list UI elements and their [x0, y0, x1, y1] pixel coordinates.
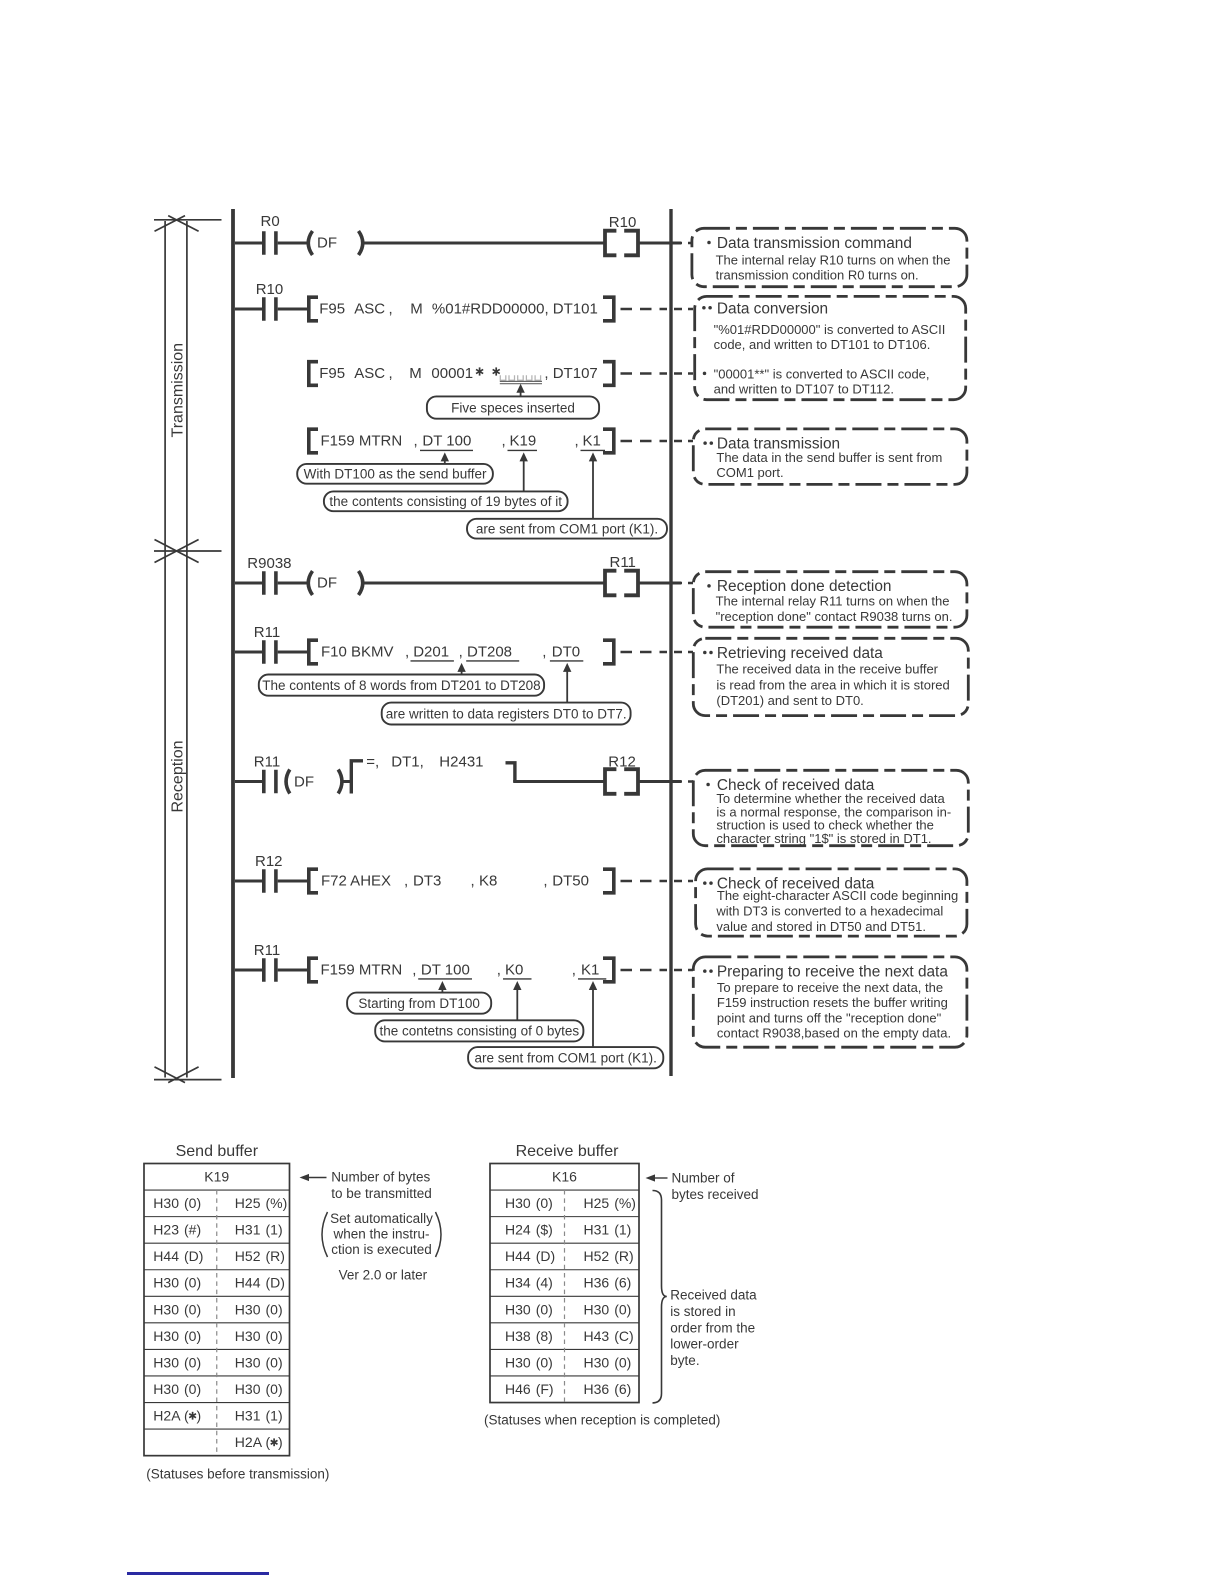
svg-text:bytes received: bytes received: [672, 1187, 759, 1202]
svg-text:the contents consisting of 19: the contents consisting of 19 bytes of i…: [329, 494, 562, 509]
note 5 (Retrieving received data) bullets: [703, 651, 707, 655]
svg-text:character string "1$" is store: character string "1$" is stored in DT1.: [716, 831, 931, 846]
wire rung6 left: [235, 651, 262, 654]
five space placeholders (gray): [500, 375, 506, 380]
DF edge-detect rung1: [308, 231, 312, 255]
svg-text:(Statuses when reception is co: (Statuses when reception is completed): [484, 1413, 720, 1428]
instruction F95 ASC (1) close bracket: [603, 297, 614, 321]
Receive buffer column divider (dashed): [564, 1190, 566, 1402]
note 6 (Check of received data 1) border: [693, 770, 968, 845]
Send buffer row lines: [144, 1189, 290, 1191]
wire rung8 left: [235, 880, 262, 883]
coil R10: [605, 231, 616, 256]
dashed link to note 5: [621, 651, 668, 653]
svg-text:R11: R11: [254, 624, 280, 641]
svg-text:H36(6): H36(6): [584, 1275, 632, 1291]
svg-text:is stored in: is stored in: [670, 1304, 735, 1319]
contact R11 rung6: [262, 640, 266, 664]
svg-text:are written to data registers: are written to data registers DT0 to DT7…: [386, 706, 627, 721]
svg-text:H30(0): H30(0): [505, 1354, 553, 1370]
svg-text:H30(0): H30(0): [153, 1381, 201, 1397]
instruction F95 ASC (2) open bracket: [309, 362, 318, 386]
wire: [278, 969, 310, 972]
svg-text:with DT3 is converted to a hex: with DT3 is converted to a hexadecimal: [715, 904, 943, 919]
svg-text:Starting from DT100: Starting from DT100: [358, 996, 480, 1011]
svg-text:Number of: Number of: [672, 1171, 735, 1186]
note 2 bullets: [702, 306, 706, 310]
callout: sent from COM1 port: [467, 519, 667, 539]
svg-text:H30(0): H30(0): [153, 1301, 201, 1317]
wire rung7 left: [235, 780, 262, 783]
contact R0: [262, 231, 266, 255]
callout: written to DT0..DT7: [382, 703, 631, 725]
right power rail: [669, 209, 672, 1076]
compare block close corner bracket: [506, 763, 515, 782]
svg-text:Retrieving received data: Retrieving received data: [717, 645, 883, 662]
note 4 (Reception done detection) bullets: [707, 584, 711, 588]
svg-text:H30(0): H30(0): [584, 1354, 632, 1370]
note 7 (Check of received data 2) bullets: [703, 881, 707, 885]
svg-text:H30(0): H30(0): [235, 1354, 283, 1370]
svg-text:H30(0): H30(0): [153, 1328, 201, 1344]
svg-text:H30(0): H30(0): [153, 1195, 201, 1211]
svg-text:DF: DF: [317, 575, 337, 592]
svg-text:The contents of 8 words from D: The contents of 8 words from DT201 to DT…: [262, 678, 540, 693]
svg-text:Receive buffer: Receive buffer: [516, 1143, 620, 1160]
contact R9038: [262, 571, 266, 595]
dashed link to note 3: [621, 440, 668, 442]
svg-text:COM1 port.: COM1 port.: [716, 465, 783, 480]
contact R11 rung7: [262, 770, 266, 794]
section span indicator: Transmission/Reception double arrow: [154, 216, 222, 1083]
arrow to spaces: [520, 391, 522, 397]
instruction F72 AHEX open bracket: [309, 869, 318, 893]
Receive buffer table frame: [490, 1164, 639, 1403]
wire: [278, 242, 310, 245]
svg-text:H36(6): H36(6): [584, 1381, 632, 1397]
svg-text:Send buffer: Send buffer: [176, 1143, 259, 1160]
svg-text:Set automatically: Set automatically: [330, 1211, 433, 1226]
svg-text:Transmission: Transmission: [169, 343, 186, 438]
svg-text:Ver 2.0 or later: Ver 2.0 or later: [339, 1268, 428, 1283]
note 8 (Preparing to receive the next data) bullets: [703, 969, 707, 973]
svg-text:The eight-character ASCII code: The eight-character ASCII code beginning: [717, 888, 958, 903]
svg-text:and written to DT107 to DT112.: and written to DT107 to DT112.: [714, 382, 894, 397]
svg-text:F159 instruction resets the bu: F159 instruction resets the buffer writi…: [717, 995, 948, 1010]
instruction F95 ASC (1) open bracket: [309, 297, 318, 321]
DF edge-detect rung5: [308, 571, 312, 595]
instruction F10 BKMV open bracket: [309, 640, 318, 664]
svg-text:transmission condition R0 turn: transmission condition R0 turns on.: [716, 268, 919, 283]
note 2 (Data conversion) border: [695, 296, 966, 399]
svg-text:H30(0): H30(0): [235, 1381, 283, 1397]
right brace for received data rows: [653, 1191, 667, 1403]
svg-text:DF: DF: [317, 235, 337, 252]
svg-text:R11: R11: [254, 754, 280, 771]
svg-text:are sent from COM1 port (K1).: are sent from COM1 port (K1).: [475, 1050, 657, 1065]
operand underlines rung9: [418, 978, 472, 980]
svg-text:value and stored in DT50 and D: value and stored in DT50 and DT51.: [716, 919, 926, 934]
svg-text:H30(0): H30(0): [584, 1301, 632, 1317]
svg-text:R10: R10: [609, 214, 637, 231]
instruction F95 ASC (2) close bracket: [603, 362, 614, 386]
Send buffer table frame: [144, 1164, 290, 1456]
arrow K0: [516, 988, 518, 1020]
svg-text:R11: R11: [254, 942, 280, 959]
dashed link to note 6: [674, 780, 693, 782]
arrow DT208: [461, 670, 463, 677]
wire: [638, 582, 681, 585]
note 6 (Check of received data 1) bullets: [706, 783, 710, 787]
svg-text:Reception: Reception: [169, 740, 186, 812]
svg-text:H31(1): H31(1): [584, 1222, 632, 1238]
dashed link to note 7: [621, 880, 668, 882]
note 1 (Data transmission command) bullets: [707, 241, 711, 245]
big parentheses note: [322, 1212, 328, 1257]
svg-text:H52(R): H52(R): [584, 1248, 634, 1264]
svg-text:"%01#RDD00000" is converted to: "%01#RDD00000" is converted to ASCII: [714, 322, 946, 337]
svg-text:H31(1): H31(1): [235, 1408, 283, 1424]
svg-text:The internal relay R10 turns o: The internal relay R10 turns on when the: [716, 252, 951, 267]
callout: contents 19 bytes: [324, 491, 568, 511]
coil R12: [605, 769, 616, 794]
double underline under spaces: [500, 380, 542, 382]
instruction F159 MTRN (reset) close bracket: [603, 958, 614, 982]
svg-text:H23(#): H23(#): [153, 1222, 201, 1238]
compare block open corner bracket: [351, 761, 363, 794]
dashed link to note 2b: [621, 372, 668, 374]
svg-text:H44(D): H44(D): [153, 1248, 203, 1264]
svg-text:H38(8): H38(8): [505, 1328, 553, 1344]
wire: [513, 780, 604, 783]
note 2 bullet para 2: [703, 372, 707, 376]
svg-text:DF: DF: [294, 774, 314, 791]
svg-text:(DT201) and sent to DT0.: (DT201) and sent to DT0.: [716, 693, 863, 708]
svg-text:ction is executed: ction is executed: [331, 1242, 432, 1257]
svg-text:F95ASC,M%01#RDD00000, DT101: F95ASC,M%01#RDD00000, DT101: [319, 301, 598, 318]
svg-text:R11: R11: [610, 554, 636, 571]
asterisk 1: [479, 367, 481, 375]
instruction F159 MTRN (send) close bracket: [603, 429, 614, 453]
svg-text:R10: R10: [256, 281, 284, 298]
arrow K1: [592, 459, 594, 518]
wire: [638, 780, 681, 783]
wire: [343, 780, 352, 783]
svg-text:With DT100 as the send buffer: With DT100 as the send buffer: [304, 467, 487, 482]
arrow: number of bytes received: [654, 1177, 668, 1179]
svg-text:lower-order: lower-order: [670, 1337, 739, 1352]
callout: Five speces inserted: [427, 396, 599, 418]
operand underlines rung4: [420, 449, 473, 451]
svg-text:point and turns off the "recep: point and turns off the "reception done": [717, 1010, 942, 1025]
arrow K19: [523, 459, 525, 491]
svg-text:K16: K16: [552, 1169, 577, 1185]
svg-text:"00001**" is converted to ASCI: "00001**" is converted to ASCII code,: [714, 366, 930, 381]
wire: [278, 880, 310, 883]
arrow DT100: [444, 459, 446, 464]
svg-text:H44(D): H44(D): [235, 1275, 285, 1291]
contact R11 rung9: [262, 958, 266, 982]
wire rung1 left: [235, 242, 262, 245]
note 1 (Data transmission command) border: [692, 228, 967, 286]
wire: [638, 242, 681, 245]
svg-text:H30(0): H30(0): [505, 1195, 553, 1211]
note 5 (Retrieving received data) border: [693, 638, 968, 715]
svg-text:contact R9038,based on the emp: contact R9038,based on the empty data.: [717, 1026, 951, 1041]
svg-text:The internal relay R11 turns o: The internal relay R11 turns on when the: [716, 594, 950, 609]
svg-text:are sent from COM1 port (K1).: are sent from COM1 port (K1).: [476, 521, 658, 536]
asterisk 2: [495, 367, 497, 375]
dashed link to note 2: [621, 308, 668, 310]
callout: With DT100 as the send buffer: [297, 464, 493, 484]
svg-text:"reception done" contact R9038: "reception done" contact R9038 turns on.: [716, 609, 953, 624]
arrow DT0: [566, 670, 568, 703]
svg-text:when the instru-: when the instru-: [332, 1226, 429, 1241]
left power rail: [231, 209, 235, 1078]
svg-text:The received data in the recei: The received data in the receive buffer: [716, 661, 938, 676]
svg-text:H30(0): H30(0): [153, 1354, 201, 1370]
callout: sent from COM1 rung9: [468, 1047, 663, 1068]
svg-text:F95ASC,M00001, DT107: F95ASC,M00001, DT107: [319, 365, 598, 382]
svg-text:Preparing to receive the next: Preparing to receive the next data: [717, 963, 948, 980]
svg-text:byte.: byte.: [670, 1353, 699, 1368]
callout: contents 0 bytes: [375, 1020, 583, 1041]
svg-text:H31(1): H31(1): [235, 1222, 283, 1238]
note 8 (Preparing to receive the next data) border: [693, 957, 967, 1047]
svg-text:Received data: Received data: [670, 1288, 757, 1303]
note 7 (Check of received data 2) border: [696, 869, 967, 936]
callout: Starting from DT100: [347, 993, 491, 1014]
svg-text:R12: R12: [255, 853, 283, 870]
svg-text:code, and written to DT101 to: code, and written to DT101 to DT106.: [714, 337, 931, 352]
svg-text:R9038: R9038: [247, 555, 291, 572]
svg-text:H46(F): H46(F): [505, 1381, 554, 1397]
instruction F159 MTRN (reset) open bracket: [309, 958, 318, 982]
dashed link to note 4: [674, 582, 693, 584]
svg-text:H30(0): H30(0): [153, 1275, 201, 1291]
Receive buffer row lines: [490, 1189, 639, 1191]
svg-text:Number of bytes: Number of bytes: [331, 1170, 430, 1185]
svg-text:H30(0): H30(0): [235, 1301, 283, 1317]
dashed link to note 8: [621, 969, 668, 971]
svg-text:(Statuses before transmission): (Statuses before transmission): [146, 1467, 329, 1482]
svg-text:To prepare to receive the next: To prepare to receive the next data, the: [717, 980, 943, 995]
svg-text:R0: R0: [261, 213, 280, 230]
arrow: number of bytes to be transmitted: [308, 1177, 327, 1179]
note 3 (Data transmission) border: [693, 429, 967, 485]
operand underlines rung6: [411, 660, 454, 662]
svg-text:H24($): H24($): [505, 1222, 553, 1238]
svg-text:Data conversion: Data conversion: [717, 300, 828, 317]
svg-text:H30(0): H30(0): [505, 1301, 553, 1317]
DF edge-detect rung7: [286, 770, 290, 794]
svg-text:Data transmission command: Data transmission command: [717, 235, 912, 252]
coil R11: [605, 571, 616, 596]
note 4 (Reception done detection) border: [693, 572, 967, 628]
svg-text:is read from the area in which: is read from the area in which it is sto…: [716, 677, 949, 692]
wire: [363, 242, 604, 245]
blue footer rule: [127, 1572, 269, 1574]
svg-text:H44(D): H44(D): [505, 1248, 555, 1264]
Send buffer column divider (dashed): [216, 1190, 218, 1456]
svg-text:H34(4): H34(4): [505, 1275, 553, 1291]
wire: [278, 651, 310, 654]
instruction F159 MTRN (send) open bracket: [309, 429, 318, 453]
svg-text:K19: K19: [204, 1169, 229, 1185]
callout: contents of 8 words: [259, 675, 544, 696]
contact R12: [262, 869, 266, 893]
dashed link to note 1: [674, 242, 693, 244]
note 3 (Data transmission) bullets: [703, 441, 707, 445]
svg-text:H30(0): H30(0): [235, 1328, 283, 1344]
wire: [278, 582, 310, 585]
svg-text:The data in the send buffer is: The data in the send buffer is sent from: [716, 450, 942, 465]
svg-text:Five speces inserted: Five speces inserted: [451, 400, 575, 415]
wire rung2 left: [235, 308, 262, 311]
svg-text:R12: R12: [608, 754, 636, 771]
instruction F72 AHEX close bracket: [603, 869, 614, 893]
svg-text:the contetns consisting of 0 b: the contetns consisting of 0 bytes: [379, 1024, 579, 1039]
wire: [363, 582, 604, 585]
arrow K1 rung9: [592, 988, 594, 1047]
wire rung5 left: [235, 582, 262, 585]
contact R10: [262, 297, 266, 321]
svg-text:H52(R): H52(R): [235, 1248, 285, 1264]
svg-text:to be transmitted: to be transmitted: [331, 1186, 432, 1201]
arrow DT100 rung9: [441, 988, 443, 993]
svg-text:H43(C): H43(C): [584, 1328, 634, 1344]
svg-text:order from the: order from the: [670, 1320, 755, 1335]
instruction F10 BKMV close bracket: [603, 640, 614, 664]
wire rung9 left: [235, 969, 262, 972]
wire: [278, 308, 310, 311]
